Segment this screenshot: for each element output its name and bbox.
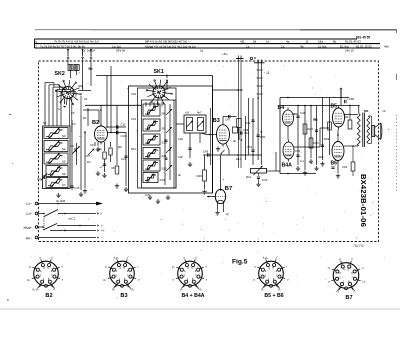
- wires SK1 feeds: [145, 102, 147, 107]
- svg-text:C10: C10: [121, 134, 127, 138]
- svg-text:C12: C12: [121, 157, 127, 161]
- svg-text:g₁: g₁: [172, 264, 175, 268]
- grid wire B3: [206, 133, 217, 135]
- variable capacitor C17: [88, 149, 95, 156]
- wire B2 cathode risers: [84, 131, 86, 188]
- svg-text:LI+: LI+: [26, 211, 32, 216]
- svg-text:R14: R14: [236, 157, 242, 161]
- coil S7 box: [46, 178, 68, 188]
- cathode network B6: [337, 161, 339, 174]
- wire HT bus upper: [280, 97, 349, 99]
- svg-text:7u,7d,9,8 4a 9d 78 7 9d 9 9m 9: 7u,7d,9,8 4a 9d 78 7 9d 9 9m 9b 4k: [40, 44, 85, 48]
- wire LI+: [58, 213, 96, 215]
- svg-text:R4: R4: [87, 160, 91, 164]
- svg-text:B4A: B4A: [282, 163, 293, 169]
- wire LI-: [38, 203, 97, 205]
- ground riser: [80, 192, 82, 194]
- wire B3 cathode: [226, 144, 229, 151]
- wire B7 feed: [220, 155, 222, 185]
- svg-text:.5t: .5t: [305, 40, 309, 44]
- wire B4 anode to B5: [294, 113, 299, 115]
- coil S13 box: [143, 173, 158, 183]
- arrow f B3: [221, 150, 225, 154]
- junction dots SK1: [164, 139, 166, 141]
- capacitor C15: [70, 185, 73, 187]
- svg-text:R11: R11: [246, 175, 251, 179]
- ground SK1 row: [149, 195, 151, 197]
- coil S9 box: [143, 119, 160, 131]
- svg-text:C18: C18: [131, 92, 136, 96]
- svg-text:C3: C3: [72, 122, 76, 126]
- svg-text:C50: C50: [260, 135, 266, 139]
- switch blade HIa: [38, 226, 43, 228]
- coil S10 box: [143, 134, 160, 145]
- svg-text:C15: C15: [74, 186, 80, 190]
- svg-text:i.c: i.c: [362, 280, 366, 284]
- svg-text:18k 15: 18k 15: [345, 49, 354, 53]
- wire B7 to f: [223, 203, 225, 212]
- svg-text:Rb: Rb: [112, 166, 116, 170]
- capacitor C46: [240, 131, 242, 134]
- junction dots output: [349, 105, 351, 107]
- aerial coil S2 box: [74, 65, 79, 71]
- svg-text:11 8ut: 11 8ut: [318, 44, 327, 48]
- svg-text:C51: C51: [247, 145, 253, 149]
- wire HI-: [38, 237, 96, 239]
- SK1 right feed arrow: [166, 75, 168, 78]
- wire T1 bottom components: [189, 133, 191, 158]
- capacitor C12: [124, 155, 127, 157]
- svg-text:1n5: 1n5: [145, 193, 150, 197]
- svg-text:nb: nb: [383, 109, 387, 113]
- AVC riser 0b: [248, 98, 250, 155]
- wire HT bus lower: [280, 105, 358, 107]
- RF coil assembly outer box: [43, 126, 71, 189]
- svg-text:SK1: SK1: [154, 69, 164, 75]
- oscillator trimmers: [166, 109, 172, 115]
- wire coil stack right risers: [71, 120, 73, 190]
- svg-text:LI−: LI−: [26, 201, 32, 206]
- svg-text:(9k0: (9k0: [318, 155, 324, 159]
- capacitor C11: [108, 126, 127, 128]
- svg-text:S3: S3: [62, 134, 66, 138]
- gram input socket: [236, 58, 244, 60]
- svg-text:+g₃: +g₃: [197, 287, 203, 291]
- svg-text:B2: B2: [45, 293, 52, 299]
- capacitor C45: [207, 153, 209, 156]
- svg-text:+7: +7: [100, 165, 104, 169]
- gram connector mark: [237, 89, 243, 91]
- svg-text:C5: C5: [71, 111, 75, 115]
- svg-text:B7: B7: [225, 186, 232, 192]
- svg-text:HI−: HI−: [26, 236, 33, 241]
- coil S5 box: [44, 153, 68, 164]
- socket B5: [259, 261, 284, 286]
- loudspeaker: [372, 126, 375, 137]
- AVC riser 0a: [245, 116, 247, 160]
- svg-text:1s.: 1s.: [281, 44, 285, 48]
- left riser 2 output stage: [322, 98, 324, 161]
- scan sheet top edge: [35, 29, 397, 31]
- resistor R6: [109, 148, 112, 155]
- svg-text:HIa+: HIa+: [23, 225, 32, 230]
- svg-text:C2b: C2b: [178, 155, 183, 159]
- svg-text:4,8: 4,8: [185, 111, 189, 115]
- tube B5: [333, 108, 345, 127]
- wire grid B2: [87, 108, 89, 126]
- svg-text:B6: B6: [331, 161, 338, 167]
- coil S11 box: [143, 148, 160, 159]
- svg-text:S9: S9: [162, 94, 166, 98]
- wire B4 to B4A: [287, 129, 289, 140]
- svg-text:BX423B-01-06: BX423B-01-06: [359, 174, 368, 227]
- resistor R7: [103, 152, 106, 159]
- ground B3: [217, 147, 219, 149]
- wire riser x111: [110, 66, 112, 133]
- wire B3 anode top: [222, 117, 224, 123]
- coil S6 box: [46, 166, 68, 177]
- grid wire B7: [207, 196, 215, 198]
- oscillator caps: [165, 139, 168, 141]
- capacitor C13: [103, 163, 106, 165]
- terminal LI+: [35, 212, 38, 215]
- HT feed arrow: [340, 90, 342, 98]
- svg-text:9|P 4,5;1e 5|1 5|5 5|8 5|51 4|: 9|P 4,5;1e 5|1 5|5 5|8 5|51 4|7 5|1—: [145, 40, 190, 44]
- wire riser x107: [106, 75, 108, 127]
- detector cap box: [233, 127, 238, 133]
- oscillator shield box right edge: [212, 75, 214, 193]
- svg-text:S16: S16: [244, 131, 250, 135]
- diode load wire: [203, 154, 262, 156]
- aerial coil S1 box: [68, 65, 73, 71]
- svg-text:8k.: 8k.: [333, 40, 337, 44]
- wire beside box edge: [209, 108, 211, 165]
- svg-text:S13: S13: [160, 178, 166, 182]
- coil S3 box: [44, 128, 68, 139]
- grounds B4 stage: [297, 166, 299, 168]
- IF trimmer S15: [198, 118, 204, 131]
- chassis dashed border: [39, 61, 379, 242]
- junction dots terminals: [64, 213, 66, 215]
- terminal HIa+: [35, 226, 38, 229]
- wire T1 left: [176, 123, 184, 125]
- svg-text:49k: 49k: [313, 118, 318, 122]
- svg-text:C17: C17: [85, 154, 91, 158]
- svg-text:+: +: [223, 178, 225, 182]
- svg-text:801 45 55: 801 45 55: [356, 36, 370, 40]
- svg-text:7h,7h,7b 4,8 11 4,8 9,6 9m2 9m: 7h,7h,7b 4,8 11 4,8 9,6 9m2 9m 9,6: [54, 40, 99, 44]
- svg-text:C47: C47: [225, 118, 231, 122]
- svg-text:4k5: 4k5: [384, 44, 389, 48]
- junction dots B2: [87, 109, 89, 111]
- socket B2: [34, 261, 59, 286]
- wire gram line 2: [240, 59, 242, 169]
- svg-text:+9: +9: [266, 71, 270, 75]
- svg-text:1a.: 1a.: [200, 49, 204, 53]
- svg-text:+: +: [388, 127, 390, 131]
- wire OPT top: [358, 106, 360, 114]
- tube B4A: [283, 142, 294, 159]
- AVC riser 2: [257, 63, 259, 160]
- tube B3: [217, 125, 230, 144]
- ground B7: [217, 203, 219, 211]
- wire B5 B6 join: [337, 130, 339, 140]
- svg-text:R2: R2: [345, 115, 349, 119]
- svg-text:m(C1: m(C1: [68, 217, 75, 221]
- svg-text:S11: S11: [162, 154, 167, 158]
- svg-text:C26: C26: [178, 137, 183, 141]
- svg-text:S4: S4: [62, 147, 66, 151]
- capacitor C48: [297, 106, 299, 166]
- svg-text:8k: 8k: [253, 40, 257, 44]
- ground R20: [204, 190, 206, 192]
- stray scan marks: [9, 114, 11, 115]
- wire B6 anode to OPT: [344, 145, 358, 147]
- oscillator coil compartment: [138, 88, 177, 188]
- svg-text:C52: C52: [295, 149, 301, 153]
- rotary switch SK2: [62, 87, 74, 99]
- svg-text:S12: S12: [162, 167, 168, 171]
- svg-text:B3: B3: [213, 118, 221, 124]
- svg-text:M5: M5: [364, 109, 369, 113]
- wire gram line 1: [237, 59, 239, 169]
- resistor R28: [348, 120, 352, 129]
- capacitor C10: [108, 132, 127, 134]
- page fold dashed line: [396, 115, 398, 192]
- SK2 wiper arrow: [64, 99, 66, 105]
- wire volume to B4A: [267, 170, 281, 172]
- svg-text:C2: C2: [37, 177, 41, 181]
- wires SK2 right side: [80, 96, 82, 115]
- svg-text:18a: 18a: [318, 40, 323, 44]
- resistor R17: [237, 119, 242, 128]
- rotary switch SK1: [153, 86, 165, 98]
- aerial input arrow A2: [82, 50, 84, 57]
- resistor R20: [204, 155, 206, 170]
- svg-text:1s: 1s: [266, 40, 270, 44]
- svg-text:+6m: +6m: [222, 52, 228, 56]
- scan sheet bottom edge: [0, 308, 400, 310]
- svg-text:−: −: [101, 236, 103, 240]
- junction dots AVC: [237, 154, 239, 156]
- tube B7: [215, 189, 225, 203]
- svg-text:C22: C22: [262, 178, 268, 182]
- svg-text:28'k 9k: 28'k 9k: [116, 49, 126, 53]
- svg-text:S7: S7: [62, 183, 66, 187]
- svg-text:76L7'B: 76L7'B: [353, 244, 364, 248]
- ground left coil stack: [58, 193, 60, 195]
- svg-text:R24: R24: [308, 127, 314, 131]
- wire B5 anode to OPT: [345, 114, 359, 116]
- svg-text:Fig.5: Fig.5: [232, 259, 248, 266]
- svg-text:B5 + B6: B5 + B6: [264, 293, 283, 299]
- coil S4 box: [44, 141, 68, 152]
- svg-text:sb Ω46: sb Ω46: [56, 199, 66, 203]
- svg-text:+g₁: +g₁: [129, 287, 134, 291]
- svg-text:S3: S3: [43, 121, 47, 125]
- wire bus y75: [96, 74, 213, 76]
- left riser 1 output stage: [316, 106, 318, 166]
- svg-text:81,81 J5 53: 81,81 J5 53: [356, 44, 372, 48]
- svg-text:4|5: 4|5: [240, 40, 245, 44]
- svg-text:0,1: 0,1: [300, 159, 304, 163]
- svg-text:4k7: 4k7: [197, 111, 202, 115]
- svg-text:C49: C49: [245, 121, 251, 125]
- capacitor C52: [296, 154, 299, 156]
- svg-text:SK2: SK2: [55, 71, 65, 77]
- svg-text:B7: B7: [345, 295, 352, 301]
- pickup socket: [250, 57, 252, 59]
- svg-text:B3: B3: [120, 293, 127, 299]
- socket B7: [333, 263, 359, 289]
- svg-text:S6: S6: [62, 172, 66, 176]
- svg-text:R29: R29: [324, 137, 330, 141]
- svg-text:C8: C8: [90, 143, 94, 147]
- svg-text:81,81 45 53: 81,81 45 53: [345, 40, 361, 44]
- svg-text:g₁: g₁: [278, 287, 281, 291]
- B4 stage box: [279, 98, 281, 174]
- output transformer S23 primary: [357, 114, 360, 147]
- svg-text:B4 + B4A: B4 + B4A: [182, 293, 205, 299]
- capacitor C58: [344, 100, 346, 103]
- junction dots B4: [287, 97, 289, 99]
- svg-text:1s.: 1s.: [246, 44, 250, 48]
- tube B4: [283, 110, 294, 126]
- aerial input arrow E: [90, 50, 92, 57]
- capacitor C47: [228, 115, 230, 118]
- resistor R25: [310, 106, 312, 159]
- wire HIa+ lower: [50, 230, 96, 232]
- AVC riser 3: [260, 63, 262, 165]
- svg-text:B4: B4: [278, 105, 285, 111]
- svg-text:+: +: [101, 224, 103, 228]
- svg-text:B2: B2: [92, 120, 99, 126]
- aerial input arrow A: [67, 50, 69, 57]
- svg-text:C45: C45: [203, 150, 209, 154]
- supply feed wires B2: [100, 105, 102, 126]
- svg-text:S5: S5: [62, 160, 66, 164]
- wire C10 to ground riser: [125, 133, 127, 187]
- coil S8 box: [143, 104, 160, 116]
- svg-text:++: ++: [101, 229, 105, 233]
- IF trimmer S14: [187, 118, 193, 131]
- svg-text:1n: 1n: [58, 107, 61, 111]
- wire aerial to coils: [82, 59, 84, 90]
- variable capacitor C2: [42, 175, 44, 179]
- tube B6: [332, 142, 344, 161]
- svg-text:4b: 4b: [300, 44, 304, 48]
- wire bus y105: [85, 104, 142, 106]
- ground B2 row: [97, 147, 99, 149]
- svg-text:C11: C11: [121, 122, 126, 126]
- coil S12 box: [143, 160, 160, 171]
- wire T1 to B3 grid: [201, 133, 206, 134]
- wire B4A anode: [294, 146, 320, 148]
- wire AVC return: [213, 89, 239, 91]
- svg-text:+C58: +C58: [347, 97, 354, 101]
- svg-text:C19: C19: [131, 117, 136, 121]
- svg-text:C26: C26: [342, 165, 348, 169]
- terminal HI-: [35, 236, 38, 239]
- socket B4: [178, 261, 203, 286]
- parts list table rules: [35, 38, 358, 40]
- oscillator shield box outer: [129, 86, 213, 193]
- svg-text:4a: 4a: [286, 40, 290, 44]
- output transformer core: [362, 113, 364, 148]
- variable capacitor C1: [74, 148, 76, 152]
- shielded lead ticks: [257, 69, 263, 71]
- wire SK2 down pair: [69, 98, 71, 126]
- wire speaker leads: [368, 115, 371, 117]
- resistor R30: [351, 162, 355, 171]
- IF transformer T1 box: [184, 115, 206, 133]
- wire HIa+ upper: [57, 225, 96, 227]
- switch SK3 blade: [38, 213, 44, 215]
- terminal LI-: [35, 202, 38, 205]
- svg-text:1a' 1at 1a': 1a' 1at 1a': [82, 49, 96, 53]
- svg-text:M1rad 4 8 .uk 5a 1at 1s1 4a1: M1rad 4 8 .uk 5a 1at 1s1 4a1 1a1 4s 1sr: [145, 44, 196, 48]
- AVC capacitors: [251, 119, 254, 121]
- wires oscillator compartment: [164, 104, 166, 185]
- svg-text:R1: R1: [83, 116, 87, 120]
- AVC riser 1: [252, 98, 254, 165]
- wires SK2 to coil stack: [44, 83, 46, 127]
- volume control R11: [251, 169, 267, 174]
- resistor R24: [304, 106, 306, 171]
- output transformer secondary: [367, 116, 370, 144]
- wire switch link: [43, 216, 45, 230]
- svg-text:S2: S2: [84, 97, 88, 101]
- resistor R9: [115, 166, 119, 174]
- left riser 3 output stage: [329, 98, 331, 156]
- socket B3: [110, 261, 135, 286]
- svg-text:R20: R20: [197, 174, 203, 178]
- tube B2: [95, 126, 108, 142]
- capacitor C22: [258, 173, 260, 176]
- svg-text:R12: R12: [131, 147, 136, 151]
